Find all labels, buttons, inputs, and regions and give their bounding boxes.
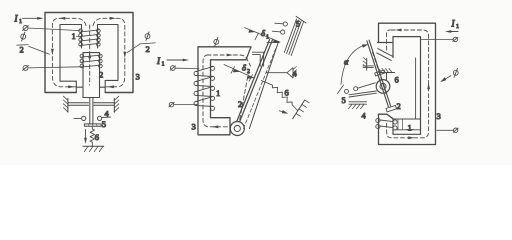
coil 1 on bottom yoke [376,118,421,130]
svg-text:5: 5 [342,95,346,105]
flux arrowheads [51,17,126,88]
svg-text:6: 6 [285,88,289,98]
terminal lower [453,128,458,132]
svg-text:1: 1 [408,123,412,133]
leader to flux [29,46,50,54]
delta2 dimension [224,65,254,82]
current I1 lead arrow [23,17,41,19]
terminal lower [23,65,29,70]
svg-text:α: α [344,57,349,67]
svg-text:4: 4 [362,111,367,121]
coil lead wire lower [28,67,82,68]
contact circles 5 [272,22,287,34]
window [393,37,421,135]
ground [83,146,104,151]
svg-text:3: 3 [136,72,140,82]
svg-text:I: I [156,56,161,66]
coil 1 turns [194,66,215,110]
alpha arc [341,45,364,84]
stop wall with hatch [363,58,374,71]
phi glyph [21,32,26,41]
svg-text:2: 2 [238,99,242,109]
plunger stem [90,98,93,124]
yoke outer [378,23,436,144]
contact 4 circles [74,116,111,120]
bracket 4 [349,102,367,109]
svg-text:1: 1 [72,31,76,41]
flux dashed loop [203,55,251,127]
delta1 dimension [245,28,280,42]
left winding window [60,25,83,93]
stop support 4 [266,66,297,78]
contact bridge bar [84,124,101,126]
spring 6 [262,81,298,111]
right guide support [94,96,119,112]
armature pad upper [375,70,385,76]
right winding window [98,25,119,93]
flux path dashed left loop [52,18,86,87]
lead stroke [338,85,344,94]
contact arm to pivot [349,83,376,97]
left guide support [63,96,88,112]
motion arrow [279,111,285,113]
flux dashed loop [373,30,429,138]
svg-text:2: 2 [99,70,103,80]
svg-text:I: I [14,14,19,24]
svg-text:1: 1 [216,88,220,98]
contact leaf pack [284,16,306,55]
contact circles 5 [345,87,358,94]
anchor wall [293,100,310,119]
flux dashed centre line in plunger [89,25,91,85]
hinge pivot [230,122,244,136]
terminal upper [453,37,458,41]
coil 1 lower turns [80,54,102,68]
coil 1 upper turns [79,29,100,46]
pivot 6 [376,80,390,94]
terminal lower [169,102,174,107]
terminal upper [170,66,175,71]
svg-text:2: 2 [146,44,150,54]
motion arrow down [85,130,87,141]
armature 2 [367,40,391,107]
svg-text:2: 2 [247,69,250,75]
svg-text:1: 1 [456,24,459,30]
svg-text:2: 2 [20,45,24,55]
flux arrowheads [212,54,233,129]
svg-text:3: 3 [437,111,441,121]
svg-text:5: 5 [296,19,300,29]
armature pad lower [386,105,397,112]
contact spring bar [249,43,278,129]
inner lamination line [415,58,417,119]
svg-text:I: I [451,19,456,29]
svg-text:6: 6 [395,75,399,85]
svg-text:6: 6 [95,132,99,142]
phi glyph [453,68,458,77]
svg-text:3: 3 [192,122,196,132]
armature phantom position dashed [244,47,277,129]
flux path dashed right loop [93,18,125,87]
armature 2 bar [234,40,273,129]
terminal upper [23,26,29,31]
leader to flux right [127,44,140,53]
yoke outer frame [45,13,133,93]
phi glyph [214,37,219,46]
svg-text:1: 1 [19,19,22,25]
svg-text:2: 2 [397,101,401,111]
phi glyph [145,32,150,41]
plunger armature 2 [83,53,100,98]
svg-text:5: 5 [102,119,106,129]
coil lead wire upper [28,28,80,31]
svg-text:1: 1 [266,35,269,41]
flux arrowheads [395,29,430,140]
pivot support wall [379,69,395,80]
armature step bracket [253,43,280,67]
core yoke 3 [198,47,251,135]
svg-text:1: 1 [162,62,165,68]
spring 6 [90,126,94,146]
